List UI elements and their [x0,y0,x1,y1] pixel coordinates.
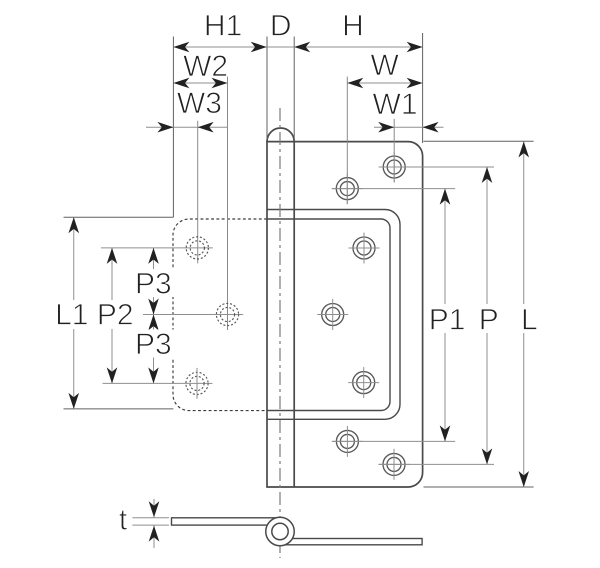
extension line hole column W2 [227,77,229,330]
extension line L1 top [64,216,174,218]
svg-text:P3: P3 [135,328,172,361]
label P3 lower [132,330,175,358]
dimension line L1 [73,217,75,409]
centerline of pin [279,108,281,558]
dimension line W1 [374,126,444,128]
dashed hole bottom left leaf [186,368,208,399]
label L1 [52,300,92,329]
dimension line W3 [146,126,228,128]
svg-text:W3: W3 [177,87,222,120]
svg-text:P2: P2 [97,298,134,331]
extension line hole F row to P1 [332,440,455,442]
dimension t ticks [132,517,169,519]
dimension line P2 [111,248,113,384]
extension line leaf bottom to L [424,486,534,488]
svg-text:t: t [119,503,128,536]
extension line hole column W3 [197,121,199,264]
label P2 [94,300,136,329]
svg-text:W: W [371,49,400,82]
side view right leaf bar [282,539,422,545]
extension line L1 bottom [64,408,174,410]
dimension t line [153,499,155,518]
hinge pin barrel right line [293,142,295,487]
label L [512,304,546,333]
hole D inner middle [317,299,348,330]
extension line left leaf edge [172,37,174,218]
dimension line L [523,142,525,488]
extension line leaf top to L [424,140,534,142]
extension line hole G row to P [379,463,495,465]
svg-text:P3: P3 [135,268,172,301]
hole F bottom left [332,426,363,457]
label P1 [427,304,467,333]
svg-text:D: D [270,10,292,43]
embossed inner rect inner line [267,219,390,411]
extension line top hole row [101,247,213,249]
svg-text:P: P [479,303,499,336]
dimension line P3 upper and lower [153,248,155,384]
extension line barrel left [266,37,268,140]
svg-text:L: L [521,303,538,336]
svg-text:H1: H1 [204,10,242,43]
dimension line W2 [173,82,227,84]
svg-text:W1: W1 [373,88,418,121]
svg-text:L1: L1 [55,298,88,331]
hole C inner top [349,233,380,264]
dashed hole top left leaf [186,237,208,259]
hole E inner bottom [348,367,379,398]
pin dome top [267,128,294,142]
dimension line P [486,167,488,464]
svg-text:W2: W2 [183,50,228,83]
extension line barrel right [293,37,295,140]
label P3 upper [132,269,175,297]
left leaf hidden outline (dashed) [173,219,267,411]
label P [470,304,507,333]
extension line leaf right edge [422,33,424,143]
hole A top right [379,152,410,183]
side view left leaf bar [172,518,277,525]
dashed hole middle left leaf [216,303,238,325]
svg-text:P1: P1 [429,303,466,336]
dimension line H (D between) [267,46,423,48]
right leaf outline [267,142,423,487]
dimension line H1 [173,46,266,48]
hole G bottom right [379,449,410,480]
dimension line W [347,82,422,84]
svg-text:H: H [342,10,364,43]
side view knuckle circle [266,517,295,546]
side view pin hole [272,523,288,539]
hole B [332,173,363,204]
dimension line P1 [444,189,446,442]
extension line middle hole row [143,314,243,316]
extension line bottom hole row [103,382,213,384]
extension line hole A row to P [379,166,494,168]
embossed inner rect outer line [267,210,400,420]
extension line hole column W [346,77,348,205]
extension line hole B row to P1 [332,188,455,190]
extension line hole column W1 [393,119,395,183]
